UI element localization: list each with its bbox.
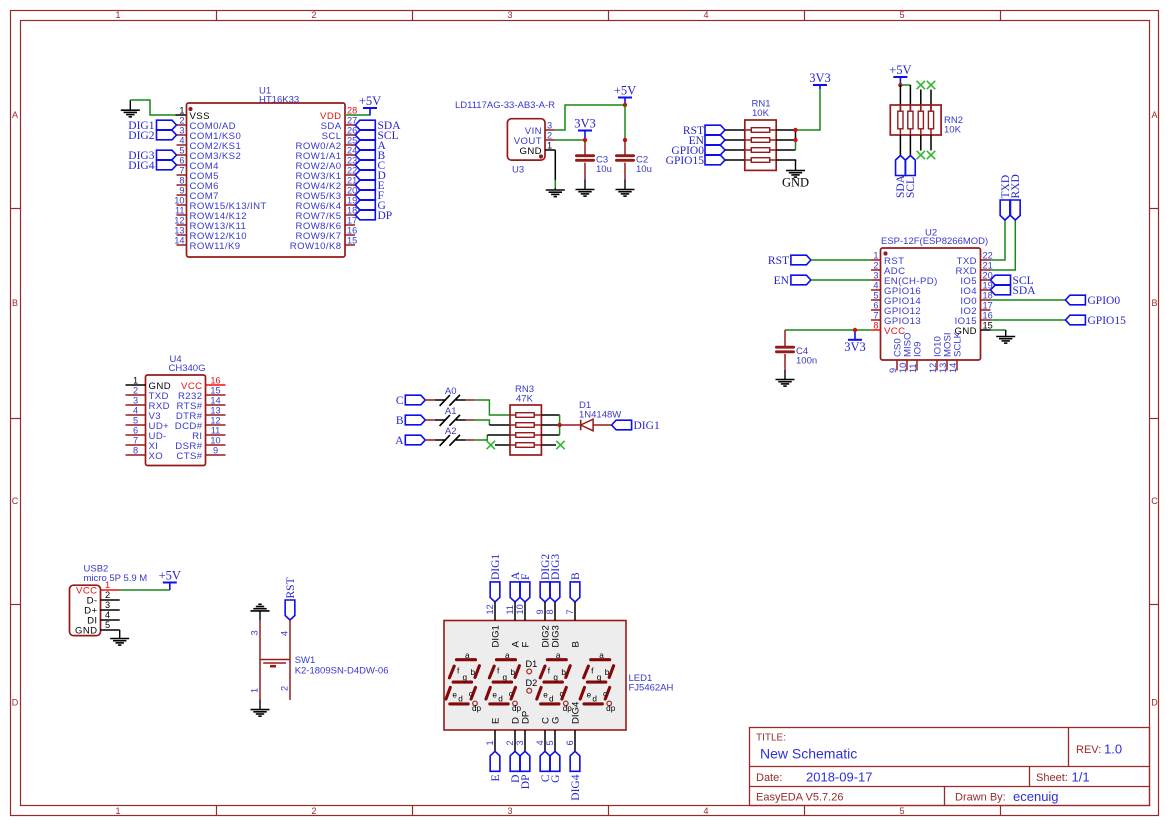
svg-text:Date:: Date: <box>756 772 782 784</box>
svg-text:4: 4 <box>873 281 878 291</box>
svg-text:5: 5 <box>899 10 904 20</box>
svg-text:6: 6 <box>133 426 138 436</box>
svg-text:dp: dp <box>512 704 522 713</box>
wire D1 to DIG1 <box>593 424 612 426</box>
svg-text:12: 12 <box>210 416 220 426</box>
net flag G (U1 pin 19) <box>355 200 375 210</box>
svg-text:HT16K33: HT16K33 <box>259 95 299 106</box>
svg-text:2: 2 <box>133 386 138 396</box>
wire U1 VSS net <box>130 100 175 115</box>
svg-text:2: 2 <box>311 806 316 816</box>
power 3V3 (RN1) <box>813 84 827 86</box>
net flag RST (U2) <box>791 255 811 265</box>
svg-text:dp: dp <box>606 704 616 713</box>
wires RN2 bottom <box>899 135 901 156</box>
ground (C2) <box>624 180 626 190</box>
diode D1 1N4148W <box>579 400 621 431</box>
svg-text:a: a <box>556 651 561 660</box>
svg-text:4: 4 <box>105 610 110 620</box>
svg-text:a: a <box>505 651 510 660</box>
svg-text:GND: GND <box>75 626 98 637</box>
wire U3 GND to ground <box>554 150 556 180</box>
svg-text:A1: A1 <box>445 406 457 417</box>
net flag DIG1 (D1) <box>612 420 632 430</box>
wire USB VCC to +5V <box>119 589 170 591</box>
svg-text:10u: 10u <box>596 164 612 175</box>
wire RST to U2 pin 1 <box>811 259 871 261</box>
svg-text:DIG4: DIG4 <box>570 774 582 800</box>
net flag RST (SW1) <box>285 600 295 620</box>
net flag GPIO0 (RN1) <box>705 145 725 155</box>
svg-text:3: 3 <box>515 740 525 745</box>
regulator U3 LD1117AG-33-AB3-A-R <box>455 100 555 176</box>
net flag DIG2 <box>157 130 177 140</box>
svg-text:DP: DP <box>520 711 531 724</box>
svg-text:c: c <box>603 689 607 698</box>
svg-text:5: 5 <box>873 291 878 301</box>
net flag EN (U2) <box>791 275 811 285</box>
net flag A (LED1 top) <box>510 582 520 602</box>
svg-text:b: b <box>605 668 610 677</box>
svg-text:3: 3 <box>250 630 260 635</box>
svg-text:5: 5 <box>105 620 110 630</box>
ground (SW1 pin1) <box>259 699 261 709</box>
net flag C (LED1 bottom) <box>540 751 550 771</box>
svg-text:SCLK: SCLK <box>952 331 963 357</box>
resistor network RN2 10K <box>890 105 963 136</box>
svg-text:D: D <box>1151 698 1158 708</box>
net flag DIG1 (LED1 top) <box>490 582 500 602</box>
net flag DIG3 (LED1 top) <box>550 582 560 602</box>
svg-text:2: 2 <box>873 261 878 271</box>
svg-text:B: B <box>396 415 404 427</box>
wire U2 RXD up <box>991 220 1016 270</box>
svg-text:U3: U3 <box>512 165 524 176</box>
display LED1 FJ5462AH <box>444 602 674 751</box>
net flag EN (RN1) <box>705 135 725 145</box>
svg-text:dp: dp <box>472 704 482 713</box>
junction RN3 out <box>557 423 561 427</box>
wire EN to U2 pin 3 <box>811 279 871 281</box>
svg-text:g: g <box>463 673 468 682</box>
wire RN3 to D1 <box>560 424 581 426</box>
wire U3 VIN to +5V node <box>555 105 625 130</box>
svg-text:CH340G: CH340G <box>169 363 206 374</box>
junction U2 VCC <box>853 328 857 332</box>
svg-text:d: d <box>549 695 554 704</box>
svg-text:21: 21 <box>983 261 993 271</box>
svg-text:8: 8 <box>179 176 184 186</box>
svg-text:100n: 100n <box>796 356 817 367</box>
solder jumper A0 <box>425 399 435 401</box>
net flag DP (LED1 bottom) <box>520 751 530 771</box>
svg-text:ecenuig: ecenuig <box>1013 789 1059 804</box>
wire A1 to RN3 r2 <box>475 420 490 425</box>
net flag B (U1 pin 24) <box>355 150 375 160</box>
svg-text:REV:: REV: <box>1076 744 1101 756</box>
net flag A (RN3) <box>405 435 425 445</box>
net flag DIG1 <box>157 120 177 130</box>
wire RN1 to 3V3 <box>796 89 821 130</box>
svg-text:c: c <box>560 689 564 698</box>
ground (C4) <box>784 370 786 380</box>
svg-text:1: 1 <box>133 376 138 386</box>
svg-text:1: 1 <box>485 740 495 745</box>
svg-text:4: 4 <box>179 136 184 146</box>
svg-text:GPIO15: GPIO15 <box>1088 315 1127 327</box>
svg-text:D: D <box>12 698 19 708</box>
net flag B (RN3) <box>405 415 425 425</box>
net flag GPIO15 (RN1) <box>705 155 725 165</box>
svg-text:9: 9 <box>213 446 218 456</box>
no-connect RN2 pin top 4 <box>927 81 935 89</box>
svg-text:B: B <box>12 298 18 308</box>
wire +5V node to C2 <box>624 105 626 140</box>
IC U1 HT16K33 <box>174 86 357 258</box>
svg-text:4: 4 <box>703 806 708 816</box>
capacitor C3 10u <box>576 140 611 180</box>
net flag B (LED1 top) <box>570 582 580 602</box>
svg-text:+5V: +5V <box>359 94 381 108</box>
svg-text:2: 2 <box>311 10 316 20</box>
svg-text:b: b <box>561 668 566 677</box>
svg-text:TITLE:: TITLE: <box>756 733 786 744</box>
wire +5V to RN2 pins <box>900 84 910 86</box>
svg-text:K2-1809SN-D4DW-06: K2-1809SN-D4DW-06 <box>295 666 389 677</box>
svg-text:ESP-12F(ESP8266MOD): ESP-12F(ESP8266MOD) <box>881 236 988 247</box>
svg-text:10u: 10u <box>636 164 652 175</box>
net flag F (LED1 top) <box>520 582 530 602</box>
svg-text:10K: 10K <box>752 108 770 119</box>
svg-text:XO: XO <box>149 451 164 462</box>
svg-text:12: 12 <box>928 363 938 373</box>
svg-text:EasyEDA V5.7.26: EasyEDA V5.7.26 <box>756 792 843 804</box>
capacitor C4 100n <box>776 330 817 370</box>
svg-text:SW1: SW1 <box>295 655 316 666</box>
svg-text:13: 13 <box>210 406 220 416</box>
junction +5V node <box>623 103 627 107</box>
svg-text:GND: GND <box>782 176 809 190</box>
svg-text:G: G <box>550 717 561 724</box>
svg-text:DIG3: DIG3 <box>550 625 561 647</box>
connector USB2 micro 5P 5.9 M <box>70 564 148 637</box>
svg-text:SCL: SCL <box>905 177 917 198</box>
svg-text:1N4148W: 1N4148W <box>579 410 621 421</box>
svg-text:DIG1: DIG1 <box>490 625 501 647</box>
svg-text:1: 1 <box>547 141 552 151</box>
net flag E (U1 pin 21) <box>355 180 375 190</box>
svg-text:B: B <box>1151 298 1157 308</box>
net flag SCL (U2) <box>991 275 1011 285</box>
wire U2 IO0 to GPIO0 <box>991 299 1066 301</box>
svg-text:1: 1 <box>105 580 110 590</box>
net flag E (LED1 bottom) <box>490 751 500 771</box>
no-connect RN3 r4 output <box>541 444 556 446</box>
svg-text:1: 1 <box>873 251 878 261</box>
wire U3 VOUT 3V3 rail <box>555 139 585 141</box>
svg-text:b: b <box>511 668 516 677</box>
svg-text:B: B <box>570 641 581 647</box>
svg-text:EN: EN <box>774 275 790 287</box>
svg-text:+5V: +5V <box>614 84 636 98</box>
resistor network RN1 10K <box>745 99 776 171</box>
svg-text:3: 3 <box>105 600 110 610</box>
svg-text:13: 13 <box>938 363 948 373</box>
svg-text:b: b <box>471 668 476 677</box>
junction RN2 <box>898 83 902 87</box>
svg-text:10: 10 <box>898 363 908 373</box>
svg-text:g: g <box>597 673 602 682</box>
svg-text:28: 28 <box>347 106 357 116</box>
junction RN1 r1 <box>793 128 797 132</box>
svg-text:GND: GND <box>519 146 542 157</box>
wires RN1 inputs <box>725 129 745 131</box>
svg-text:c: c <box>469 689 473 698</box>
svg-text:2: 2 <box>280 686 290 691</box>
svg-text:8: 8 <box>873 321 878 331</box>
svg-text:DIG3: DIG3 <box>550 554 562 580</box>
net flag G (LED1 bottom) <box>550 751 560 771</box>
svg-text:e: e <box>452 690 457 699</box>
solder jumper A1 <box>425 419 435 421</box>
net flag DIG2 (LED1 top) <box>540 582 550 602</box>
svg-text:12: 12 <box>485 604 495 614</box>
svg-text:4: 4 <box>280 631 290 636</box>
svg-text:11: 11 <box>505 605 515 615</box>
solder jumper A2 <box>425 439 435 441</box>
svg-text:CTS#: CTS# <box>176 451 202 462</box>
no-connect RN2 pin bottom 3 <box>917 151 925 159</box>
net flag F (U1 pin 20) <box>355 190 375 200</box>
svg-text:ROW11/K9: ROW11/K9 <box>190 241 241 252</box>
svg-text:11: 11 <box>211 426 221 436</box>
svg-text:7: 7 <box>179 166 184 176</box>
svg-text:DP: DP <box>378 210 393 222</box>
svg-text:D1: D1 <box>526 659 538 669</box>
svg-text:10: 10 <box>210 436 220 446</box>
svg-text:e: e <box>587 690 592 699</box>
ground (C3) <box>584 180 586 190</box>
svg-text:4: 4 <box>703 10 708 20</box>
net flag D (U1 pin 22) <box>355 170 375 180</box>
svg-text:6: 6 <box>565 740 575 745</box>
svg-text:7: 7 <box>873 311 878 321</box>
svg-text:2: 2 <box>505 740 515 745</box>
svg-text:6: 6 <box>873 301 878 311</box>
svg-text:13: 13 <box>174 226 184 236</box>
ground GND (RN1) <box>795 160 797 171</box>
power +5V (U3 input) <box>618 97 632 99</box>
power 3V3 (U3 output) <box>578 130 592 132</box>
net flag DP (U1 pin 18) <box>355 210 375 220</box>
svg-text:11: 11 <box>908 363 918 373</box>
svg-text:18: 18 <box>983 291 993 301</box>
svg-text:a: a <box>599 651 604 660</box>
svg-text:22: 22 <box>983 251 993 261</box>
wire USB GND to ground <box>119 630 121 631</box>
svg-text:DIG2: DIG2 <box>128 130 154 142</box>
svg-text:A: A <box>395 435 404 447</box>
net flag SDA (U2) <box>991 285 1011 295</box>
svg-text:G: G <box>550 775 562 783</box>
svg-text:d: d <box>458 695 463 704</box>
svg-text:g: g <box>503 673 508 682</box>
svg-text:1: 1 <box>115 10 120 20</box>
svg-text:A2: A2 <box>445 426 457 437</box>
svg-text:E: E <box>490 718 501 724</box>
no-connect RN2 pin bottom 4 <box>927 151 935 159</box>
wire U2 TXD up <box>991 220 1006 260</box>
junction RN1 r2 <box>793 138 797 142</box>
svg-text:DP: DP <box>520 775 532 790</box>
svg-text:A0: A0 <box>445 386 457 397</box>
svg-text:GPIO15: GPIO15 <box>666 155 705 167</box>
switch SW1 K2-1809SN-D4DW-06 <box>250 620 389 700</box>
net flag SCL (U1 pin 26) <box>355 130 375 140</box>
net flag TXD <box>1000 200 1010 220</box>
svg-text:1: 1 <box>179 106 184 116</box>
svg-text:RST: RST <box>285 577 297 598</box>
svg-text:FJ5462AH: FJ5462AH <box>629 683 674 694</box>
ground (USB2) <box>119 630 121 639</box>
svg-text:5: 5 <box>899 806 904 816</box>
title block <box>750 728 1150 806</box>
svg-text:B: B <box>570 572 582 580</box>
svg-text:DIG4: DIG4 <box>570 701 581 724</box>
svg-text:1/1: 1/1 <box>1072 770 1090 785</box>
svg-text:Drawn By:: Drawn By: <box>955 792 1006 804</box>
net flag C (RN3) <box>405 395 425 405</box>
resistor network RN3 47K <box>510 384 541 455</box>
svg-text:RXD: RXD <box>1010 174 1022 198</box>
svg-text:5: 5 <box>133 416 138 426</box>
svg-text:8: 8 <box>133 446 138 456</box>
svg-text:DIG1: DIG1 <box>490 554 502 580</box>
svg-text:A: A <box>12 110 18 120</box>
svg-text:+5V: +5V <box>159 569 181 583</box>
svg-text:C: C <box>12 496 19 506</box>
ground (U3) <box>554 188 556 190</box>
net flag RXD <box>1010 200 1020 220</box>
svg-text:micro 5P 5.9 M: micro 5P 5.9 M <box>84 573 148 584</box>
svg-text:10: 10 <box>515 604 525 614</box>
svg-text:C: C <box>1151 496 1158 506</box>
wire U2 IO15 to GPIO15 <box>991 319 1066 321</box>
svg-text:3: 3 <box>507 806 512 816</box>
net flag SDA (U1 pin 27) <box>355 120 375 130</box>
svg-text:4: 4 <box>535 740 545 745</box>
svg-text:SDA: SDA <box>1013 285 1037 297</box>
svg-text:5: 5 <box>179 146 184 156</box>
svg-text:e: e <box>543 690 548 699</box>
svg-text:D2: D2 <box>526 678 538 688</box>
power +5V (USB2) <box>163 582 177 584</box>
svg-text:New Schematic: New Schematic <box>760 746 857 762</box>
svg-text:5: 5 <box>545 740 555 745</box>
svg-text:3V3: 3V3 <box>844 340 866 354</box>
svg-text:3: 3 <box>507 10 512 20</box>
IC U2 ESP-12F(ESP8266MOD) <box>871 228 993 374</box>
svg-text:15: 15 <box>347 236 357 246</box>
svg-text:2: 2 <box>105 590 110 600</box>
svg-text:47K: 47K <box>516 394 534 405</box>
junction C2 top <box>623 138 627 142</box>
svg-text:3: 3 <box>179 126 184 136</box>
svg-text:e: e <box>492 690 497 699</box>
svg-text:ROW10/K8: ROW10/K8 <box>290 241 342 252</box>
svg-text:GPIO0: GPIO0 <box>1088 295 1121 307</box>
wire A2 to RN3 r3 <box>475 435 488 440</box>
svg-text:DIG4: DIG4 <box>128 160 154 172</box>
svg-text:12: 12 <box>174 216 184 226</box>
svg-text:17: 17 <box>347 216 357 226</box>
svg-text:g: g <box>553 673 558 682</box>
svg-text:2: 2 <box>179 116 184 126</box>
svg-text:9: 9 <box>888 368 898 373</box>
svg-text:3: 3 <box>547 121 552 131</box>
svg-text:14: 14 <box>948 363 958 373</box>
svg-text:3V3: 3V3 <box>809 71 831 85</box>
svg-text:6: 6 <box>179 156 184 166</box>
power 3V3 (U2) <box>848 339 862 341</box>
svg-text:14: 14 <box>210 396 220 406</box>
power +5V (RN2) <box>893 76 907 78</box>
svg-text:3: 3 <box>873 271 878 281</box>
svg-text:16: 16 <box>983 311 993 321</box>
svg-text:E: E <box>490 775 502 782</box>
wires RN1 outputs <box>776 129 795 131</box>
svg-text:15: 15 <box>983 321 993 331</box>
svg-text:dp: dp <box>563 704 573 713</box>
wires RN3 outputs <box>541 414 559 416</box>
wire U2 VCC 3V3 rail <box>785 329 871 331</box>
power +5V (U1) <box>363 107 377 109</box>
no-connect RN3 r4 input <box>487 441 495 449</box>
svg-text:16: 16 <box>210 376 220 386</box>
svg-text:DIG1: DIG1 <box>634 420 660 432</box>
svg-text:4: 4 <box>133 406 138 416</box>
svg-text:d: d <box>498 695 503 704</box>
svg-text:9: 9 <box>179 186 184 196</box>
svg-text:LD1117AG-33-AB3-A-R: LD1117AG-33-AB3-A-R <box>455 100 555 111</box>
net flag SCL (RN2) <box>906 156 916 176</box>
net flag GPIO15 <box>1065 315 1085 325</box>
svg-text:C: C <box>396 395 404 407</box>
wire A0 to RN3 r1 <box>475 400 510 415</box>
ground (U2) <box>1005 330 1007 337</box>
net flag A (U1 pin 25) <box>355 140 375 150</box>
net flag DIG3 <box>157 150 177 160</box>
svg-text:IO9: IO9 <box>912 342 923 357</box>
capacitor C2 10u <box>616 140 651 180</box>
net flag RST (RN1) <box>705 125 725 135</box>
wire RN1 r4 to ground <box>776 160 795 161</box>
ground (U1 VSS) <box>129 100 131 110</box>
svg-text:7: 7 <box>565 609 575 614</box>
svg-text:1: 1 <box>115 806 120 816</box>
svg-text:A: A <box>1151 110 1157 120</box>
svg-text:17: 17 <box>983 301 993 311</box>
net flag DIG4 (LED1 bottom) <box>570 751 580 771</box>
net flag D (LED1 bottom) <box>510 751 520 771</box>
svg-text:8: 8 <box>545 609 555 614</box>
net flag SDA (RN2) <box>896 156 906 176</box>
svg-text:16: 16 <box>347 226 357 236</box>
svg-text:3V3: 3V3 <box>574 117 596 131</box>
svg-text:15: 15 <box>210 386 220 396</box>
no-connect RN2 pin top 3 <box>917 81 925 89</box>
svg-text:Sheet:: Sheet: <box>1036 772 1068 784</box>
